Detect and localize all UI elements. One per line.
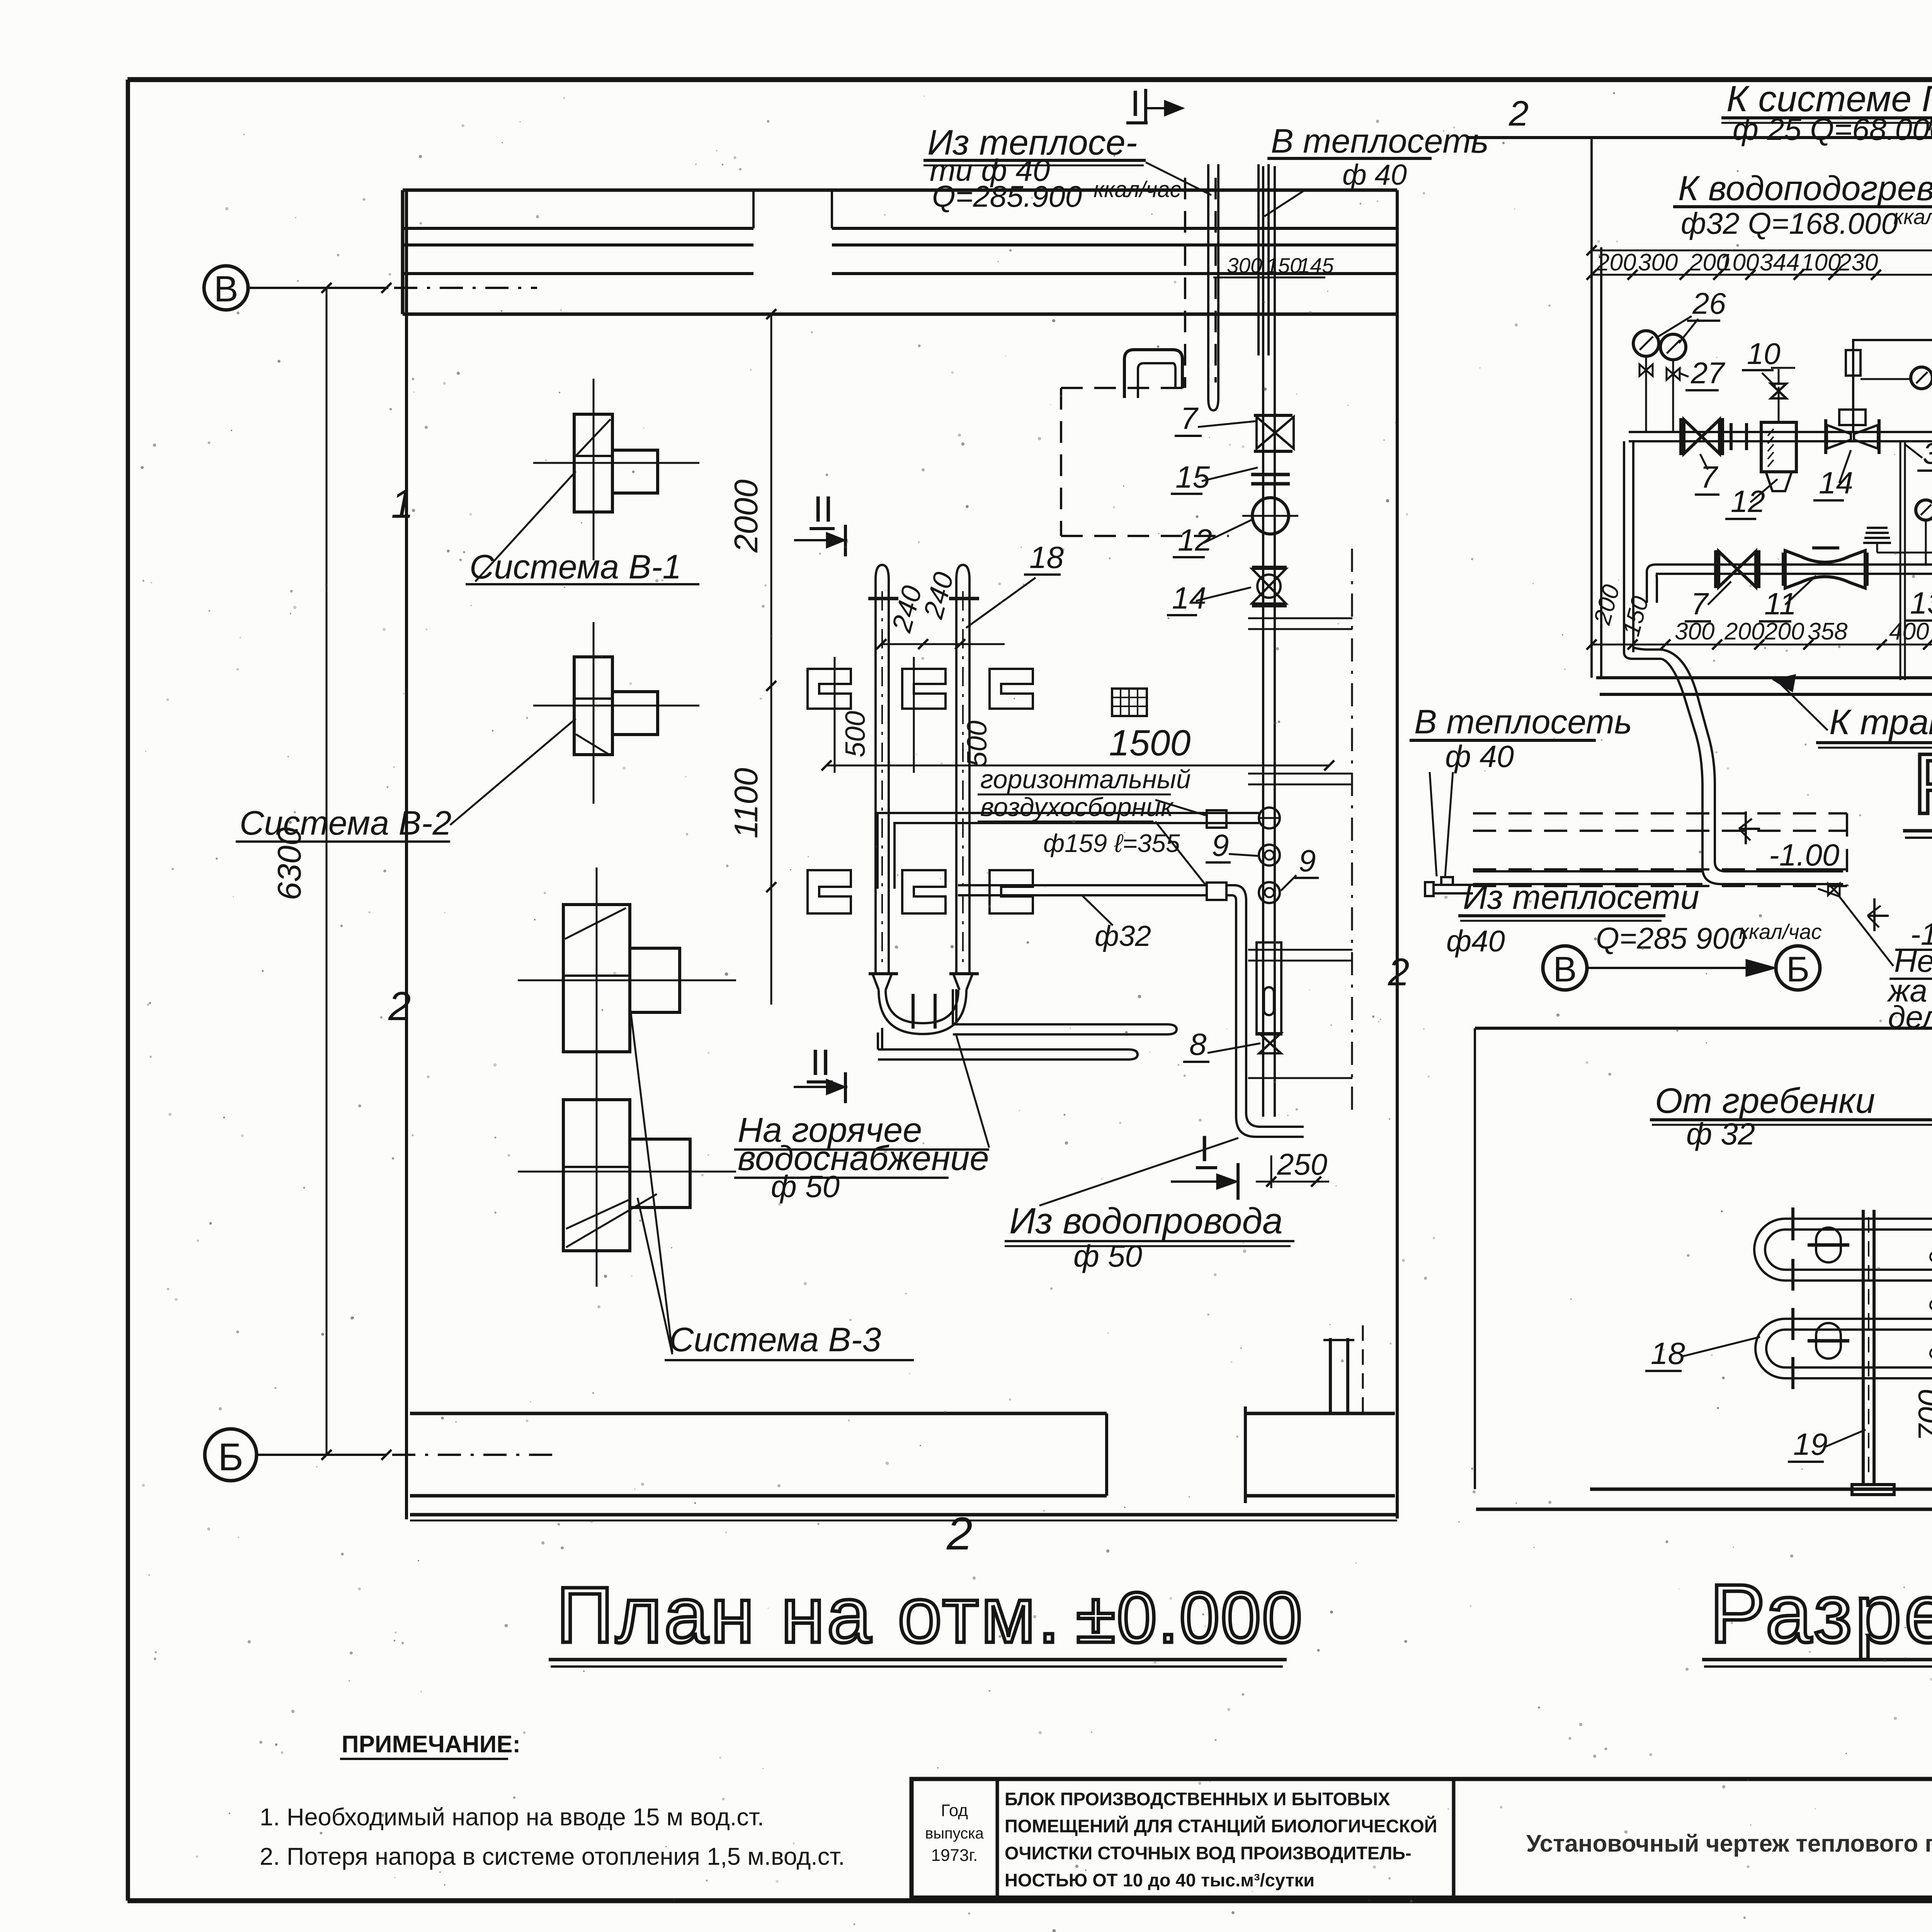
svg-text:Разрез: Разрез [1710, 1567, 1932, 1660]
pipe clamp brackets lower row [808, 870, 851, 913]
svg-text:10: 10 [1747, 337, 1781, 371]
svg-text:2000: 2000 [728, 480, 765, 553]
left U-bend tiers 1-2 [1754, 1219, 1785, 1281]
hot water pipe B [878, 1048, 1128, 1051]
svg-text:11: 11 [1764, 587, 1796, 621]
heat exchanger tier 4 [1785, 1366, 1932, 1369]
svg-text:1100: 1100 [728, 768, 765, 838]
drain point on trench pipe [1828, 884, 1840, 895]
axis line Б [257, 1454, 386, 1456]
left downcomer pipe [1623, 441, 1625, 652]
axis circle B (top-left) [204, 266, 248, 310]
riser pipe 2 (plan) [956, 565, 969, 974]
left U-bend tiers 3-4 [1755, 1319, 1785, 1378]
svg-text:ф 40: ф 40 [1342, 158, 1407, 191]
svg-text:ПРИМЕЧАНИЕ:: ПРИМЕЧАНИЕ: [342, 1731, 520, 1758]
svg-text:344: 344 [1760, 249, 1799, 276]
svg-text:ПОМЕЩЕНИЙ ДЛЯ СТАНЦИЙ БИОЛОГИЧ: ПОМЕЩЕНИЙ ДЛЯ СТАНЦИЙ БИОЛОГИЧЕСКОЙ [1005, 1816, 1437, 1836]
svg-text:Разрез: Разрез [1913, 736, 1932, 832]
pipe jumper loop [1124, 350, 1182, 398]
svg-text:1. Необходимый напор на вводе: 1. Необходимый напор на вводе 15 м вод.с… [260, 1804, 764, 1831]
svg-text:Год: Год [941, 1801, 968, 1820]
plan right pipe riser [1262, 166, 1264, 1117]
section II-II floor [1590, 1488, 1932, 1491]
level mark -1.300 [1867, 915, 1889, 917]
dimension 240 240 [881, 643, 1005, 645]
svg-text:ккал/час: ккал/час [1094, 177, 1181, 202]
svg-text:План на отм.: План на отм. [556, 1571, 1062, 1659]
dashed shaft lines [1184, 178, 1186, 388]
svg-text:500: 500 [840, 711, 871, 757]
svg-text:горизонтальный: горизонтальный [980, 765, 1191, 794]
water meter 12 (plan) [1252, 498, 1289, 534]
svg-text:воздухосборник: воздухосборник [980, 793, 1174, 822]
svg-text:2: 2 [1388, 951, 1410, 994]
outgoing heat pipe (plan top) [1257, 164, 1260, 355]
radiator system B-3b [563, 1100, 630, 1251]
svg-text:выпуска: выпуска [925, 1825, 984, 1842]
needle valve 10 above filter [1778, 387, 1780, 422]
svg-text:Q=285.900: Q=285.900 [932, 179, 1082, 213]
svg-text:12: 12 [1178, 523, 1212, 557]
svg-text:-1.00: -1.00 [1769, 838, 1839, 872]
valve 14 (plan) [1252, 569, 1286, 604]
svg-text:27: 27 [1690, 356, 1725, 390]
svg-text:14: 14 [1172, 581, 1206, 615]
svg-text:К водоподогревателю: К водоподогревателю [1678, 169, 1932, 208]
compensator capsule tier1 [1816, 1228, 1841, 1262]
svg-text:2: 2 [1509, 94, 1529, 133]
svg-text:400: 400 [1889, 618, 1929, 645]
trench horizontal pipe [1473, 870, 1702, 872]
building top wall lines [403, 189, 1397, 192]
svg-text:±0.000: ±0.000 [1076, 1578, 1304, 1658]
section I-I top boundary [1467, 136, 1932, 139]
axis line B [248, 287, 388, 289]
radiator system B-2 [574, 657, 612, 755]
strainer on riser (plan) [1257, 942, 1281, 1034]
valve 7 on plan riser [1257, 417, 1294, 449]
pipe clamp brackets upper row [808, 669, 851, 709]
svg-text:7: 7 [1700, 460, 1718, 494]
lower pipe run [1656, 563, 1932, 566]
svg-text:Система В-3: Система В-3 [669, 1320, 881, 1359]
floor line section I-I [1596, 676, 1932, 679]
heat exchanger tier 1 [1785, 1218, 1932, 1220]
svg-text:Из теплосети: Из теплосети [1463, 878, 1699, 916]
U-bend under risers [872, 974, 879, 990]
interior vertical dimension line 2000/1100 [770, 314, 772, 1005]
level mark -1.00 [1739, 828, 1760, 830]
axis circle Б (section) [1776, 946, 1820, 990]
riser pipe 1 (plan) [876, 565, 889, 974]
scan speckle noise [951, 371, 954, 374]
title block outer frame [912, 1779, 1932, 1898]
svg-text:7: 7 [1691, 587, 1709, 621]
svg-text:19: 19 [1793, 1427, 1828, 1461]
svg-text:От гребенки: От гребенки [1655, 1081, 1875, 1121]
svg-text:200: 200 [1724, 618, 1764, 645]
svg-text:100: 100 [1801, 249, 1841, 276]
svg-text:II: II [813, 489, 833, 530]
dimension 1500 [827, 765, 1329, 767]
air collector horizontal pipe [885, 812, 1259, 814]
svg-text:Система В-2: Система В-2 [240, 804, 451, 842]
svg-text:30: 30 [1923, 436, 1932, 470]
mud filter 12 upper [1761, 422, 1796, 472]
bottom wall dimension line [410, 1520, 1397, 1522]
svg-text:300: 300 [1227, 253, 1262, 277]
check valve 11 [1785, 551, 1865, 588]
flanges on risers [868, 597, 898, 600]
pipe run 2 to water line [958, 884, 1207, 886]
svg-text:200: 200 [1764, 618, 1804, 645]
svg-text:1973г.: 1973г. [931, 1846, 978, 1865]
svg-text:9: 9 [1299, 844, 1316, 878]
circles 9 on riser [1259, 845, 1280, 866]
axis circle В (section) [1543, 946, 1587, 990]
heat exchanger tier 3 [1785, 1318, 1932, 1320]
axis circle Б (bottom-left) [205, 1429, 257, 1481]
svg-text:ф 40: ф 40 [1445, 739, 1514, 774]
svg-text:II: II [810, 1042, 831, 1083]
svg-text:500: 500 [962, 721, 993, 767]
pipes at bottom wall door [1329, 1338, 1332, 1413]
svg-text:200: 200 [1596, 249, 1636, 276]
svg-text:7: 7 [1180, 401, 1199, 435]
svg-text:1500: 1500 [1109, 723, 1191, 764]
svg-text:Б: Б [1786, 950, 1810, 989]
gauges 26 left pair [1633, 331, 1659, 356]
svg-text:2: 2 [388, 984, 411, 1029]
building right wall [1396, 190, 1399, 1519]
drain pipe 30 [1900, 441, 1901, 680]
left axis lines of section I-I [1590, 138, 1593, 678]
flanges on exchanger [1791, 1207, 1794, 1240]
gauge on bypass [1911, 367, 1932, 389]
support column 1 [1862, 1210, 1865, 1485]
svg-text:12: 12 [1731, 484, 1765, 519]
svg-text:ккал/час: ккал/час [1739, 920, 1822, 944]
fitting box on pipe 1 [1207, 810, 1226, 828]
air collector end fitting [1259, 808, 1280, 828]
dashed instrument zone rectangle [1061, 387, 1185, 389]
svg-text:2. Потеря напора в системе ото: 2. Потеря напора в системе отопления 1,5… [260, 1843, 845, 1870]
overall dimension 4424 [1592, 250, 1932, 252]
fitting box on pipe 2 [1207, 883, 1226, 900]
svg-text:Б: Б [218, 1435, 243, 1479]
svg-text:13: 13 [1910, 586, 1932, 620]
svg-text:Q=285 900: Q=285 900 [1596, 921, 1746, 955]
svg-text:18: 18 [1651, 1336, 1685, 1371]
svg-text:ф 50: ф 50 [771, 1169, 840, 1204]
upper pipe run [1629, 431, 1932, 433]
svg-text:8: 8 [1189, 1027, 1207, 1061]
svg-text:ОЧИСТКИ СТОЧНЫХ ВОД ПРОИЗВО: ОЧИСТКИ СТОЧНЫХ ВОД ПРОИЗВОДИТЕЛЬ- [1005, 1843, 1412, 1863]
flange pair upper run [1730, 423, 1733, 450]
svg-text:15: 15 [1175, 460, 1210, 494]
hot water pipe A [953, 1023, 1167, 1026]
svg-text:2: 2 [946, 1508, 973, 1560]
svg-text:1: 1 [391, 481, 413, 527]
title block vertical dividers [996, 1779, 999, 1898]
section II-II boundary [1475, 1027, 1932, 1030]
svg-text:700: 700 [1912, 1390, 1932, 1441]
svg-text:В: В [1553, 950, 1577, 989]
downcomer S-bend to trench [1662, 650, 1843, 884]
valve 7 lower [1719, 551, 1756, 587]
bypass loop upper [1853, 340, 1932, 432]
flow regulator 14 upper [1827, 425, 1851, 449]
svg-text:I: I [1199, 1128, 1209, 1169]
lower dimension chain [1592, 644, 1932, 646]
svg-text:НОСТЬЮ ОТ 10 до 40 тыс.: НОСТЬЮ ОТ 10 до 40 тыс.м³/сутки [1005, 1870, 1315, 1890]
arrow В to Б [1588, 967, 1762, 969]
svg-text:В теплосеть: В теплосеть [1271, 122, 1489, 160]
svg-text:100: 100 [1719, 249, 1759, 276]
fitting 15 flanges [1251, 473, 1290, 476]
svg-text:Установочный чертеж теплового: Установочный чертеж теплового пункта [1526, 1830, 1932, 1857]
svg-text:26: 26 [1692, 286, 1726, 320]
upper dimension chain [1592, 274, 1932, 276]
svg-text:В: В [214, 269, 238, 310]
svg-text:Из водопровода: Из водопровода [1009, 1201, 1283, 1242]
heat exchanger tier 2 [1785, 1269, 1932, 1271]
svg-text:300: 300 [1638, 249, 1678, 276]
svg-text:ф32: ф32 [1095, 920, 1151, 952]
drain grate symbol [1112, 689, 1147, 716]
water pipe elbow down [1226, 885, 1304, 1137]
svg-text:ф 32: ф 32 [1686, 1117, 1755, 1151]
svg-text:ф159 ℓ=355: ф159 ℓ=355 [1043, 829, 1180, 857]
svg-text:18: 18 [1029, 540, 1064, 575]
svg-text:145: 145 [1298, 253, 1334, 277]
support ticks on right pipe [1248, 617, 1352, 619]
svg-text:ф32 Q=168.000: ф32 Q=168.000 [1681, 206, 1898, 240]
svg-text:9: 9 [1212, 828, 1229, 862]
svg-text:150: 150 [1266, 253, 1302, 277]
building bottom wall [410, 1412, 1107, 1415]
svg-text:358: 358 [1808, 618, 1848, 645]
svg-text:ф 50: ф 50 [1073, 1239, 1142, 1273]
svg-text:ккал/час: ккал/час [1893, 205, 1932, 229]
building left wall [405, 190, 408, 1519]
compensator capsule tier3-4 [1816, 1323, 1841, 1359]
incoming heat pipe (plan top) [1207, 164, 1209, 398]
svg-text:230: 230 [1838, 249, 1878, 276]
svg-text:300: 300 [1675, 618, 1714, 645]
radiator system B-3a [563, 905, 630, 1052]
valve 7 upper run [1684, 420, 1719, 454]
vertical dimension 6300 [326, 288, 328, 1455]
svg-text:ф40: ф40 [1446, 924, 1505, 958]
svg-text:14: 14 [1819, 466, 1853, 500]
mid instrument cluster [1916, 500, 1932, 520]
svg-text:В теплосеть: В теплосеть [1414, 702, 1632, 741]
trench pipes entering left [1434, 884, 1473, 886]
radiator system B-1 [574, 414, 612, 512]
svg-text:250: 250 [1277, 1147, 1327, 1181]
svg-text:БЛОК ПРОИЗВОДСТВЕННЫХ И БЫТ: БЛОК ПРОИЗВОДСТВЕННЫХ И БЫТОВЫХ [1005, 1789, 1390, 1809]
svg-text:I: I [1130, 83, 1140, 124]
trench dashed channel [1473, 812, 1847, 815]
